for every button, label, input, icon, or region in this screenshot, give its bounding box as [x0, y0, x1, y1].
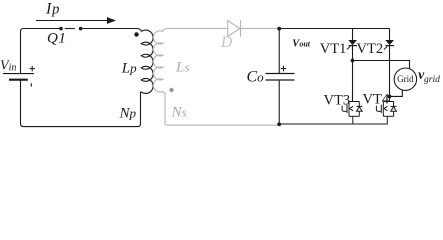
svg-text:VT2: VT2	[357, 41, 384, 57]
right leg wire below VT2	[389, 46, 391, 102]
primary polarity dot	[134, 32, 138, 36]
svg-text:Vout: Vout	[292, 39, 310, 50]
diode D cathode bar (gray)	[240, 20, 242, 36]
node top junction dot	[277, 27, 281, 31]
secondary polarity dot (gray)	[169, 88, 173, 92]
switch Q1 blade	[65, 28, 75, 30]
minus tick of Vin	[30, 83, 32, 86]
wire secondary top to diode (gray)	[168, 28, 228, 30]
wire node down to capacitor	[278, 29, 280, 74]
switch Q1 left contact dot	[59, 27, 63, 31]
capacitor Co top plate	[266, 73, 295, 75]
mosfet VT4	[376, 102, 396, 125]
plus sign of Co	[281, 66, 286, 71]
left leg wire below VT1	[352, 46, 354, 102]
svg-text:VT3: VT3	[324, 93, 351, 109]
grid source circle	[394, 68, 416, 90]
svg-text:Ls: Ls	[175, 60, 189, 76]
thyristor VT1	[347, 40, 357, 50]
wire diode to node (gray)	[241, 28, 278, 30]
wire switch to transformer	[82, 29, 141, 32]
svg-text:Lp: Lp	[121, 60, 137, 76]
capacitor Co bottom plate	[266, 79, 295, 81]
svg-text:VT4: VT4	[363, 91, 390, 107]
bottom rail black	[279, 123, 387, 125]
thyristor VT2	[384, 40, 394, 50]
source Vin battery long plate	[3, 73, 34, 75]
svg-text:Ns: Ns	[171, 104, 187, 120]
svg-text:grid: grid	[424, 75, 440, 85]
primary winding Lp	[141, 30, 153, 93]
wire top-left from Vin to switch	[21, 29, 60, 74]
secondary winding Ls (gray)	[153, 29, 167, 94]
node bottom junction dot	[277, 122, 281, 126]
svg-text:D: D	[220, 34, 232, 51]
diode D triangle (gray)	[228, 21, 240, 37]
current arrow Ip	[36, 17, 116, 24]
plus sign of Vin	[29, 66, 35, 72]
svg-text:Np: Np	[119, 105, 137, 121]
node right midpoint dot	[388, 95, 392, 99]
node left midpoint dot	[351, 59, 355, 63]
switch Q1 right contact dot	[79, 27, 83, 31]
svg-text:Grid: Grid	[397, 74, 414, 84]
left bridge leg upper wire	[352, 29, 354, 41]
wire Vin bottom to bottom-left rail	[21, 80, 141, 127]
wire grid bottom to right midpoint	[391, 90, 402, 96]
wire secondary bottom to rail (gray)	[165, 93, 279, 125]
top rail to bridge	[279, 28, 389, 30]
wire left midpoint to grid top	[354, 61, 409, 69]
mosfet VT3	[342, 102, 362, 125]
source Vin battery short thick plate	[9, 79, 28, 81]
wire capacitor to bottom rail	[278, 80, 280, 125]
svg-text:Q1: Q1	[47, 31, 66, 47]
svg-text:Co: Co	[247, 68, 265, 85]
svg-text:VT1: VT1	[320, 41, 347, 57]
right bridge leg upper wire	[389, 29, 391, 41]
svg-text:Ip: Ip	[45, 1, 60, 18]
